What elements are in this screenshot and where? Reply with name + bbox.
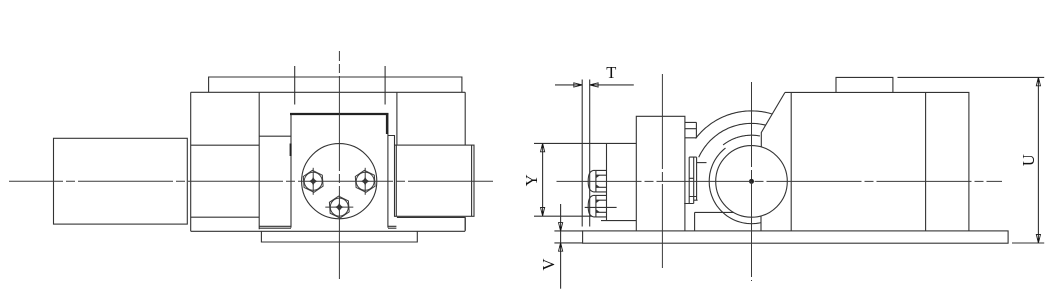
- dimension Y: [522, 143, 636, 216]
- neck top edge left: [259, 135, 291, 137]
- pad bottom step lines right: [388, 226, 396, 228]
- boss vertical centerline: [751, 82, 753, 281]
- solenoid vertical centerline: [661, 74, 663, 268]
- mounting pad square: [290, 113, 388, 228]
- big circle: [716, 146, 788, 218]
- port P left: [303, 168, 323, 195]
- boss bottom support: [695, 212, 761, 231]
- right upper block divider: [397, 92, 465, 231]
- chamfer line: [761, 92, 785, 147]
- horizontal centerline right view: [557, 180, 1003, 182]
- port P right: [355, 168, 375, 195]
- top plate: [209, 77, 462, 92]
- arc A outer: [696, 111, 773, 139]
- projection tick right: [384, 66, 386, 105]
- base plate: [583, 231, 1009, 243]
- top tab: [836, 77, 893, 92]
- arc B middle: [699, 123, 766, 157]
- boss arc: [709, 148, 761, 224]
- vertical plate: [636, 116, 685, 231]
- left upper block divider: [191, 92, 260, 229]
- arc C inner: [723, 135, 760, 145]
- dimension T: [555, 63, 634, 227]
- horizontal centerline: [9, 180, 493, 182]
- hex nut 1: [588, 170, 606, 192]
- dimension V: [539, 204, 583, 289]
- body block: [785, 92, 969, 231]
- pad bottom step lines left: [259, 226, 291, 228]
- right cylinder: [395, 145, 475, 216]
- svg-text:U: U: [1019, 154, 1038, 166]
- vertical centerline: [338, 51, 340, 279]
- center dot: [749, 179, 754, 184]
- dimension U: [898, 77, 1045, 243]
- spring strip: [684, 157, 706, 203]
- svg-text:Y: Y: [522, 174, 541, 186]
- svg-text:T: T: [606, 63, 616, 82]
- projection tick left: [294, 66, 296, 105]
- hex nut 2: [588, 195, 606, 217]
- neck top edge right: [388, 136, 395, 146]
- bottom plate: [261, 231, 417, 242]
- big mounting circle: [302, 144, 377, 219]
- svg-text:V: V: [539, 258, 558, 270]
- nut2 centerline: [585, 206, 617, 208]
- port P bottom: [325, 196, 353, 218]
- body main outline: [191, 92, 466, 231]
- ladder rungs top: [685, 122, 697, 137]
- solenoid block: [601, 143, 636, 220]
- left cylinder: [54, 138, 188, 224]
